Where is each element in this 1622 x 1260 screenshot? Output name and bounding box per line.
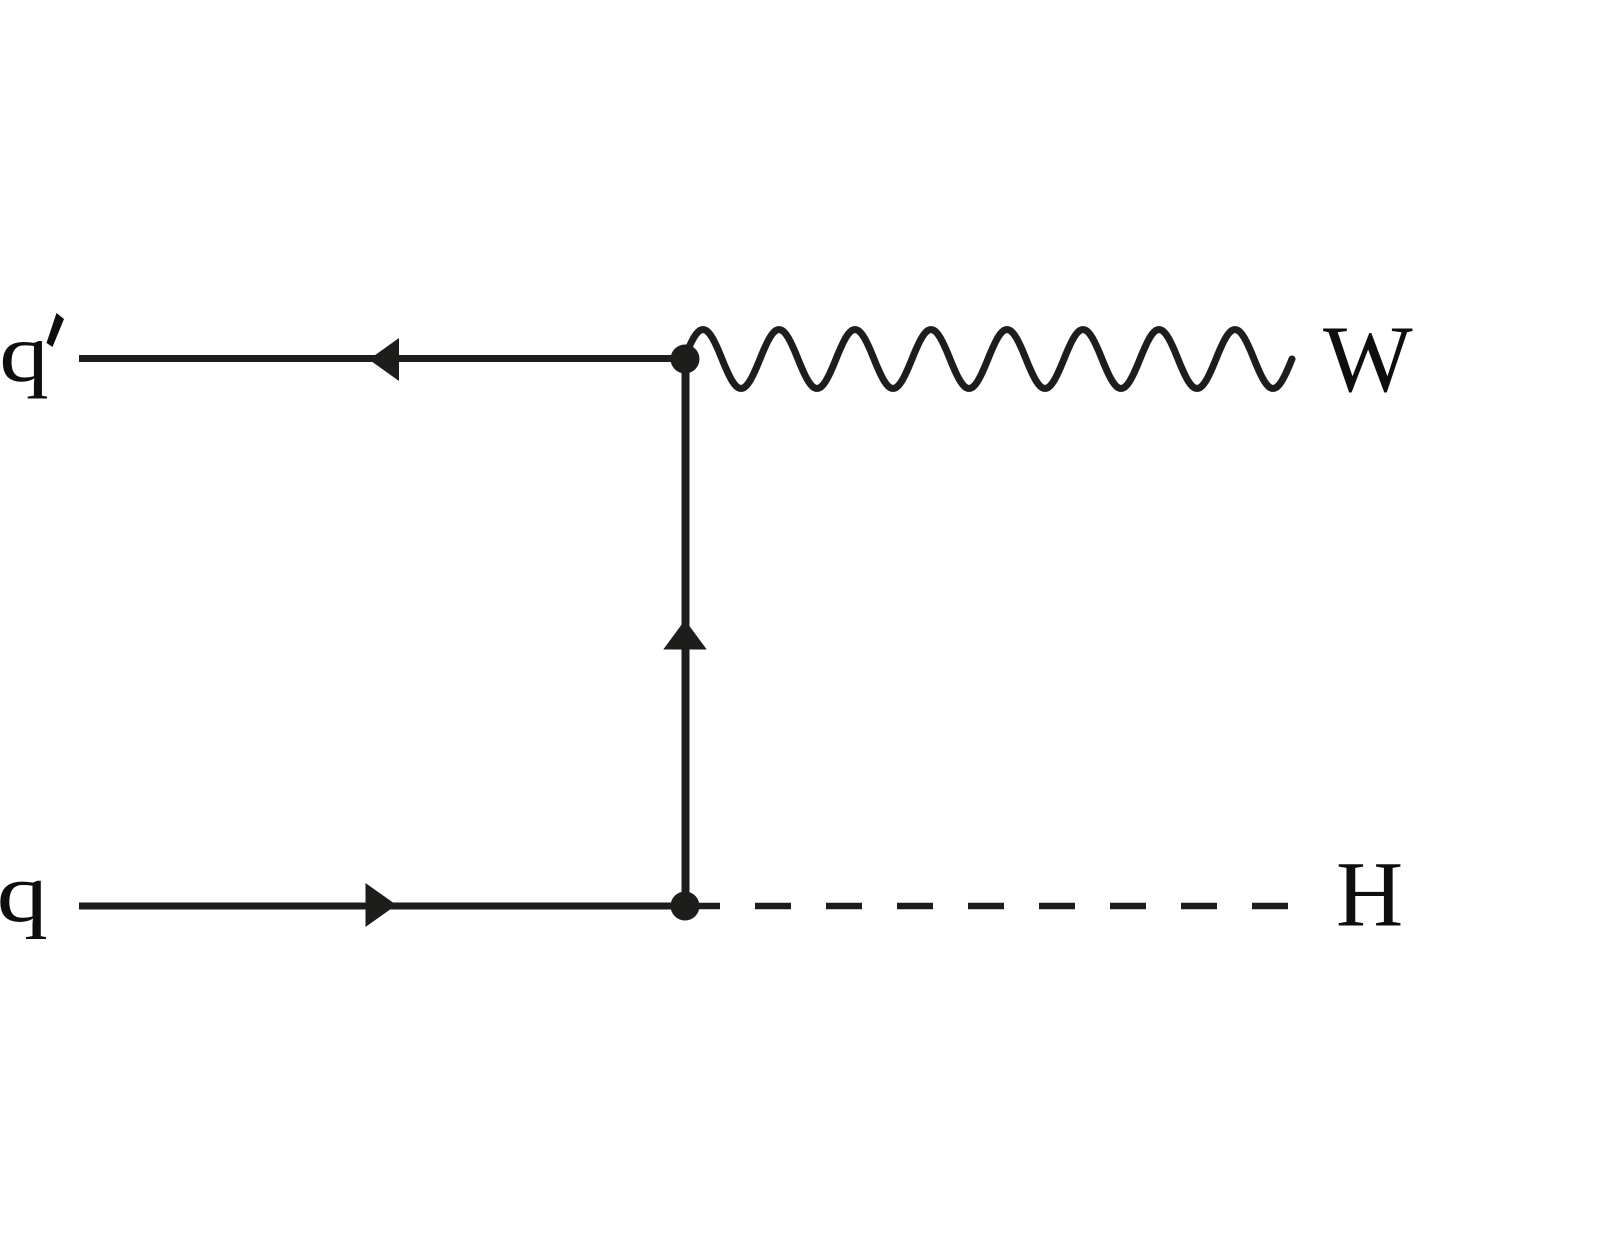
vertex dot: q q' W vertex [671, 345, 700, 374]
label q (bottom incoming quark) [0, 848, 48, 940]
prime mark of q' [47, 313, 65, 347]
vertex dot: q q H vertex [671, 892, 700, 921]
svg-text:q: q [0, 308, 49, 400]
svg-text:W: W [1323, 306, 1413, 412]
quark propagator (vertical fermion line) [682, 359, 690, 906]
Higgs boson dashed line [684, 903, 1288, 910]
label q' (top incoming quark) [0, 308, 49, 400]
incoming quark line q (bottom fermion line) [79, 903, 685, 910]
svg-text:H: H [1336, 844, 1403, 947]
arrowhead on q line (pointing right) [366, 883, 397, 927]
W boson wavy line [684, 330, 1292, 389]
arrowhead on q' line (pointing left) [369, 338, 399, 381]
arrowhead on propagator (pointing up) [663, 620, 707, 650]
incoming quark line q' (top fermion line) [79, 355, 685, 362]
svg-text:q: q [0, 848, 48, 940]
